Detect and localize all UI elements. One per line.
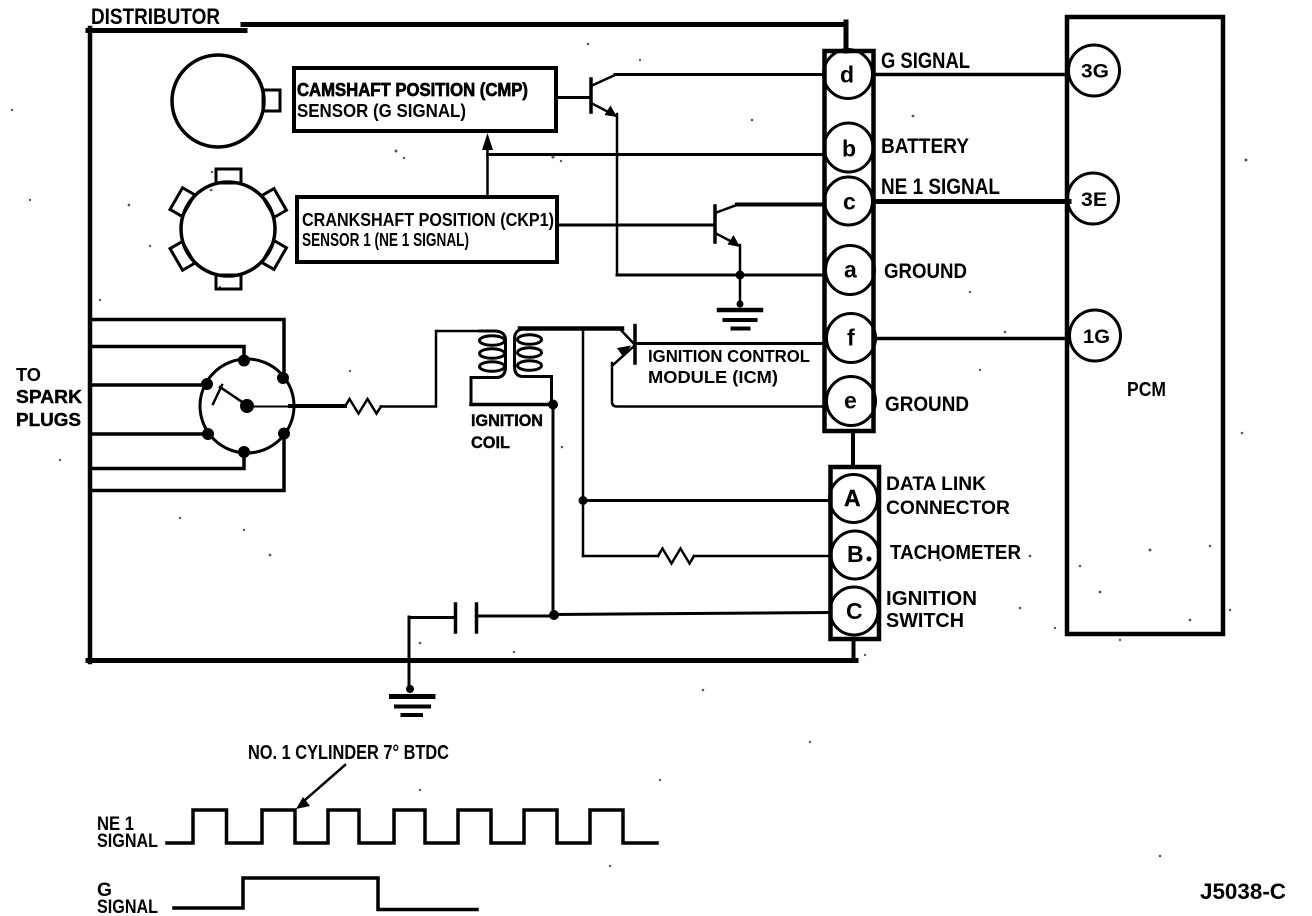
svg-text:G SIGNAL: G SIGNAL <box>881 48 970 73</box>
terminal c <box>825 177 873 225</box>
svg-text:a: a <box>844 257 857 283</box>
svg-text:GROUND: GROUND <box>884 260 967 283</box>
spark plug wire 4 <box>93 432 203 436</box>
wire coil primary to Q3 collector <box>520 326 622 331</box>
wire G signal to terminal d <box>615 73 824 76</box>
wire terminal e to 3-pin connector <box>851 431 855 467</box>
CKP1 sensor box <box>297 197 557 262</box>
svg-text:IGNITION: IGNITION <box>886 588 977 610</box>
ground symbol G1 under Q2 <box>719 275 761 329</box>
svg-text:COIL: COIL <box>471 434 510 452</box>
waveform NE 1 <box>167 810 657 843</box>
PCM terminal 1G <box>1070 310 1121 361</box>
svg-text:DATA LINK: DATA LINK <box>886 474 986 495</box>
svg-text:BATTERY: BATTERY <box>881 135 969 158</box>
wire 3-pin connector bottom to box border <box>852 639 856 660</box>
spark plug wire 6 <box>93 440 284 491</box>
svg-text:IGNITION CONTROL: IGNITION CONTROL <box>648 346 810 366</box>
junction dot capacitor node <box>549 610 559 620</box>
svg-text:NE 1 SIGNAL: NE 1 SIGNAL <box>881 174 1000 199</box>
terminal e <box>827 377 876 426</box>
resistor R2 (tachometer) <box>658 549 694 564</box>
svg-text:SENSOR 1 (NE 1 SIGNAL): SENSOR 1 (NE 1 SIGNAL) <box>302 229 469 250</box>
junction dot coil bottom <box>548 400 558 410</box>
svg-text:IGNITION: IGNITION <box>471 412 543 430</box>
svg-text:e: e <box>844 388 857 414</box>
distributor cap <box>200 355 294 459</box>
waveform G <box>174 878 477 910</box>
terminal d <box>824 50 873 99</box>
wire to tach resistor <box>583 555 658 558</box>
wire capacitor to chassis ground <box>408 617 411 688</box>
wire battery to terminal b <box>488 153 825 156</box>
capacitor C1 (condenser) <box>409 604 554 632</box>
svg-text:CRANKSHAFT POSITION (CKP1): CRANKSHAFT POSITION (CKP1) <box>302 209 554 230</box>
wire R2 to terminal B <box>694 555 831 558</box>
junction dot ground bus <box>736 271 745 280</box>
svg-text:3E: 3E <box>1081 190 1107 211</box>
resistor R1 (rotor suppression) <box>345 399 381 414</box>
terminal b <box>824 123 873 172</box>
PCM terminal 3E <box>1068 173 1119 224</box>
spark plug wire 5 <box>93 458 244 469</box>
label NE 1 SIGNAL (waveform) <box>97 814 158 852</box>
wire coil negative tap down to DLC/tach <box>582 329 585 556</box>
rotor arm <box>213 385 245 404</box>
svg-text:GROUND: GROUND <box>885 393 969 416</box>
svg-text:3G: 3G <box>1081 62 1109 83</box>
wire Q2 emitter down <box>739 245 742 275</box>
annotation arrow <box>296 765 345 809</box>
wire terminal d to PCM 3G <box>874 73 1068 77</box>
transistor Q3 (ICM power transistor) <box>613 326 635 366</box>
ignition coil primary winding <box>515 329 552 403</box>
spark plug wire 1 <box>93 320 284 373</box>
6-pin distributor connector <box>825 51 874 431</box>
wire R1 to coil secondary <box>381 331 480 407</box>
svg-text:NO. 1 CYLINDER 7° BTDC: NO. 1 CYLINDER 7° BTDC <box>248 742 449 764</box>
CMP sensor box <box>294 68 556 131</box>
transistor Q2 (CKP output) <box>558 205 740 248</box>
svg-text:SENSOR (G SIGNAL): SENSOR (G SIGNAL) <box>297 100 466 121</box>
wire coil bottoms junction <box>471 403 553 407</box>
transistor Q1 (CMP output) <box>557 75 617 118</box>
CMP reluctor wheel <box>172 55 280 147</box>
spark plug wire 3 <box>93 383 202 387</box>
svg-text:C: C <box>846 598 863 624</box>
svg-text:b: b <box>842 136 856 162</box>
terminal a <box>826 246 875 295</box>
PCM box <box>1067 17 1223 634</box>
svg-text:B: B <box>847 541 864 567</box>
DISTRIBUTOR enclosure box <box>88 25 856 663</box>
spark plug wire 2 <box>93 347 244 356</box>
junction dot DLC tap <box>579 496 588 505</box>
terminal B <box>831 531 879 579</box>
wire Q1 emitter to ground bus <box>616 114 619 275</box>
svg-text:SWITCH: SWITCH <box>886 610 964 632</box>
svg-text:c: c <box>843 189 856 215</box>
svg-text:PLUGS: PLUGS <box>16 410 81 430</box>
wire Q3 emitter to terminal e <box>612 363 824 407</box>
wire capacitor node to terminal C <box>554 613 830 615</box>
ignition coil secondary winding <box>471 331 506 403</box>
wire to terminal A (data link) <box>583 499 830 502</box>
CKP reluctor wheel <box>170 169 286 289</box>
3-pin connector (DLC/tach/ign switch) <box>831 467 880 639</box>
svg-text:DISTRIBUTOR: DISTRIBUTOR <box>91 4 220 29</box>
terminal A <box>830 475 878 523</box>
svg-text:A: A <box>844 485 861 511</box>
label TO SPARK PLUGS <box>16 365 82 430</box>
label DATA LINK CONNECTOR <box>886 474 1010 519</box>
terminal C <box>830 587 878 635</box>
svg-text:CAMSHAFT POSITION (CMP): CAMSHAFT POSITION (CMP) <box>297 79 528 100</box>
wire top border into terminal d <box>844 22 849 51</box>
svg-text:SPARK: SPARK <box>16 387 82 407</box>
svg-text:1G: 1G <box>1083 327 1110 348</box>
wire terminal c to PCM 3E <box>874 199 1069 204</box>
ground symbol G2 (chassis) <box>392 685 434 715</box>
svg-text:d: d <box>840 62 854 88</box>
svg-text:CONNECTOR: CONNECTOR <box>886 498 1010 519</box>
svg-text:TO: TO <box>16 365 41 385</box>
svg-text:J5038-C: J5038-C <box>1200 879 1286 904</box>
svg-text:f: f <box>847 325 855 351</box>
svg-text:PCM: PCM <box>1127 379 1166 401</box>
svg-text:TACHOMETER: TACHOMETER <box>890 542 1022 564</box>
label IGNITION CONTROL MODULE (ICM) <box>648 346 810 387</box>
wire terminal f to Q3 base <box>637 342 824 345</box>
wire rotor to resistor R1 <box>254 406 292 408</box>
battery feed arrow into CMP box <box>482 133 493 197</box>
wire NE1 signal to terminal c <box>737 203 824 207</box>
label IGNITION SWITCH <box>886 588 977 632</box>
wire terminal f to PCM 1G <box>874 337 1069 341</box>
svg-text:MODULE (ICM): MODULE (ICM) <box>648 367 778 387</box>
wire ground bus to terminal a <box>617 274 824 277</box>
label IGNITION COIL <box>471 412 543 452</box>
svg-text:SIGNAL: SIGNAL <box>97 831 158 852</box>
label G SIGNAL (waveform) <box>97 880 158 916</box>
terminal f <box>827 314 876 363</box>
PCM terminal 3G <box>1069 45 1120 96</box>
svg-text:SIGNAL: SIGNAL <box>97 897 158 916</box>
wire coil bottom to capacitor node <box>552 405 555 616</box>
